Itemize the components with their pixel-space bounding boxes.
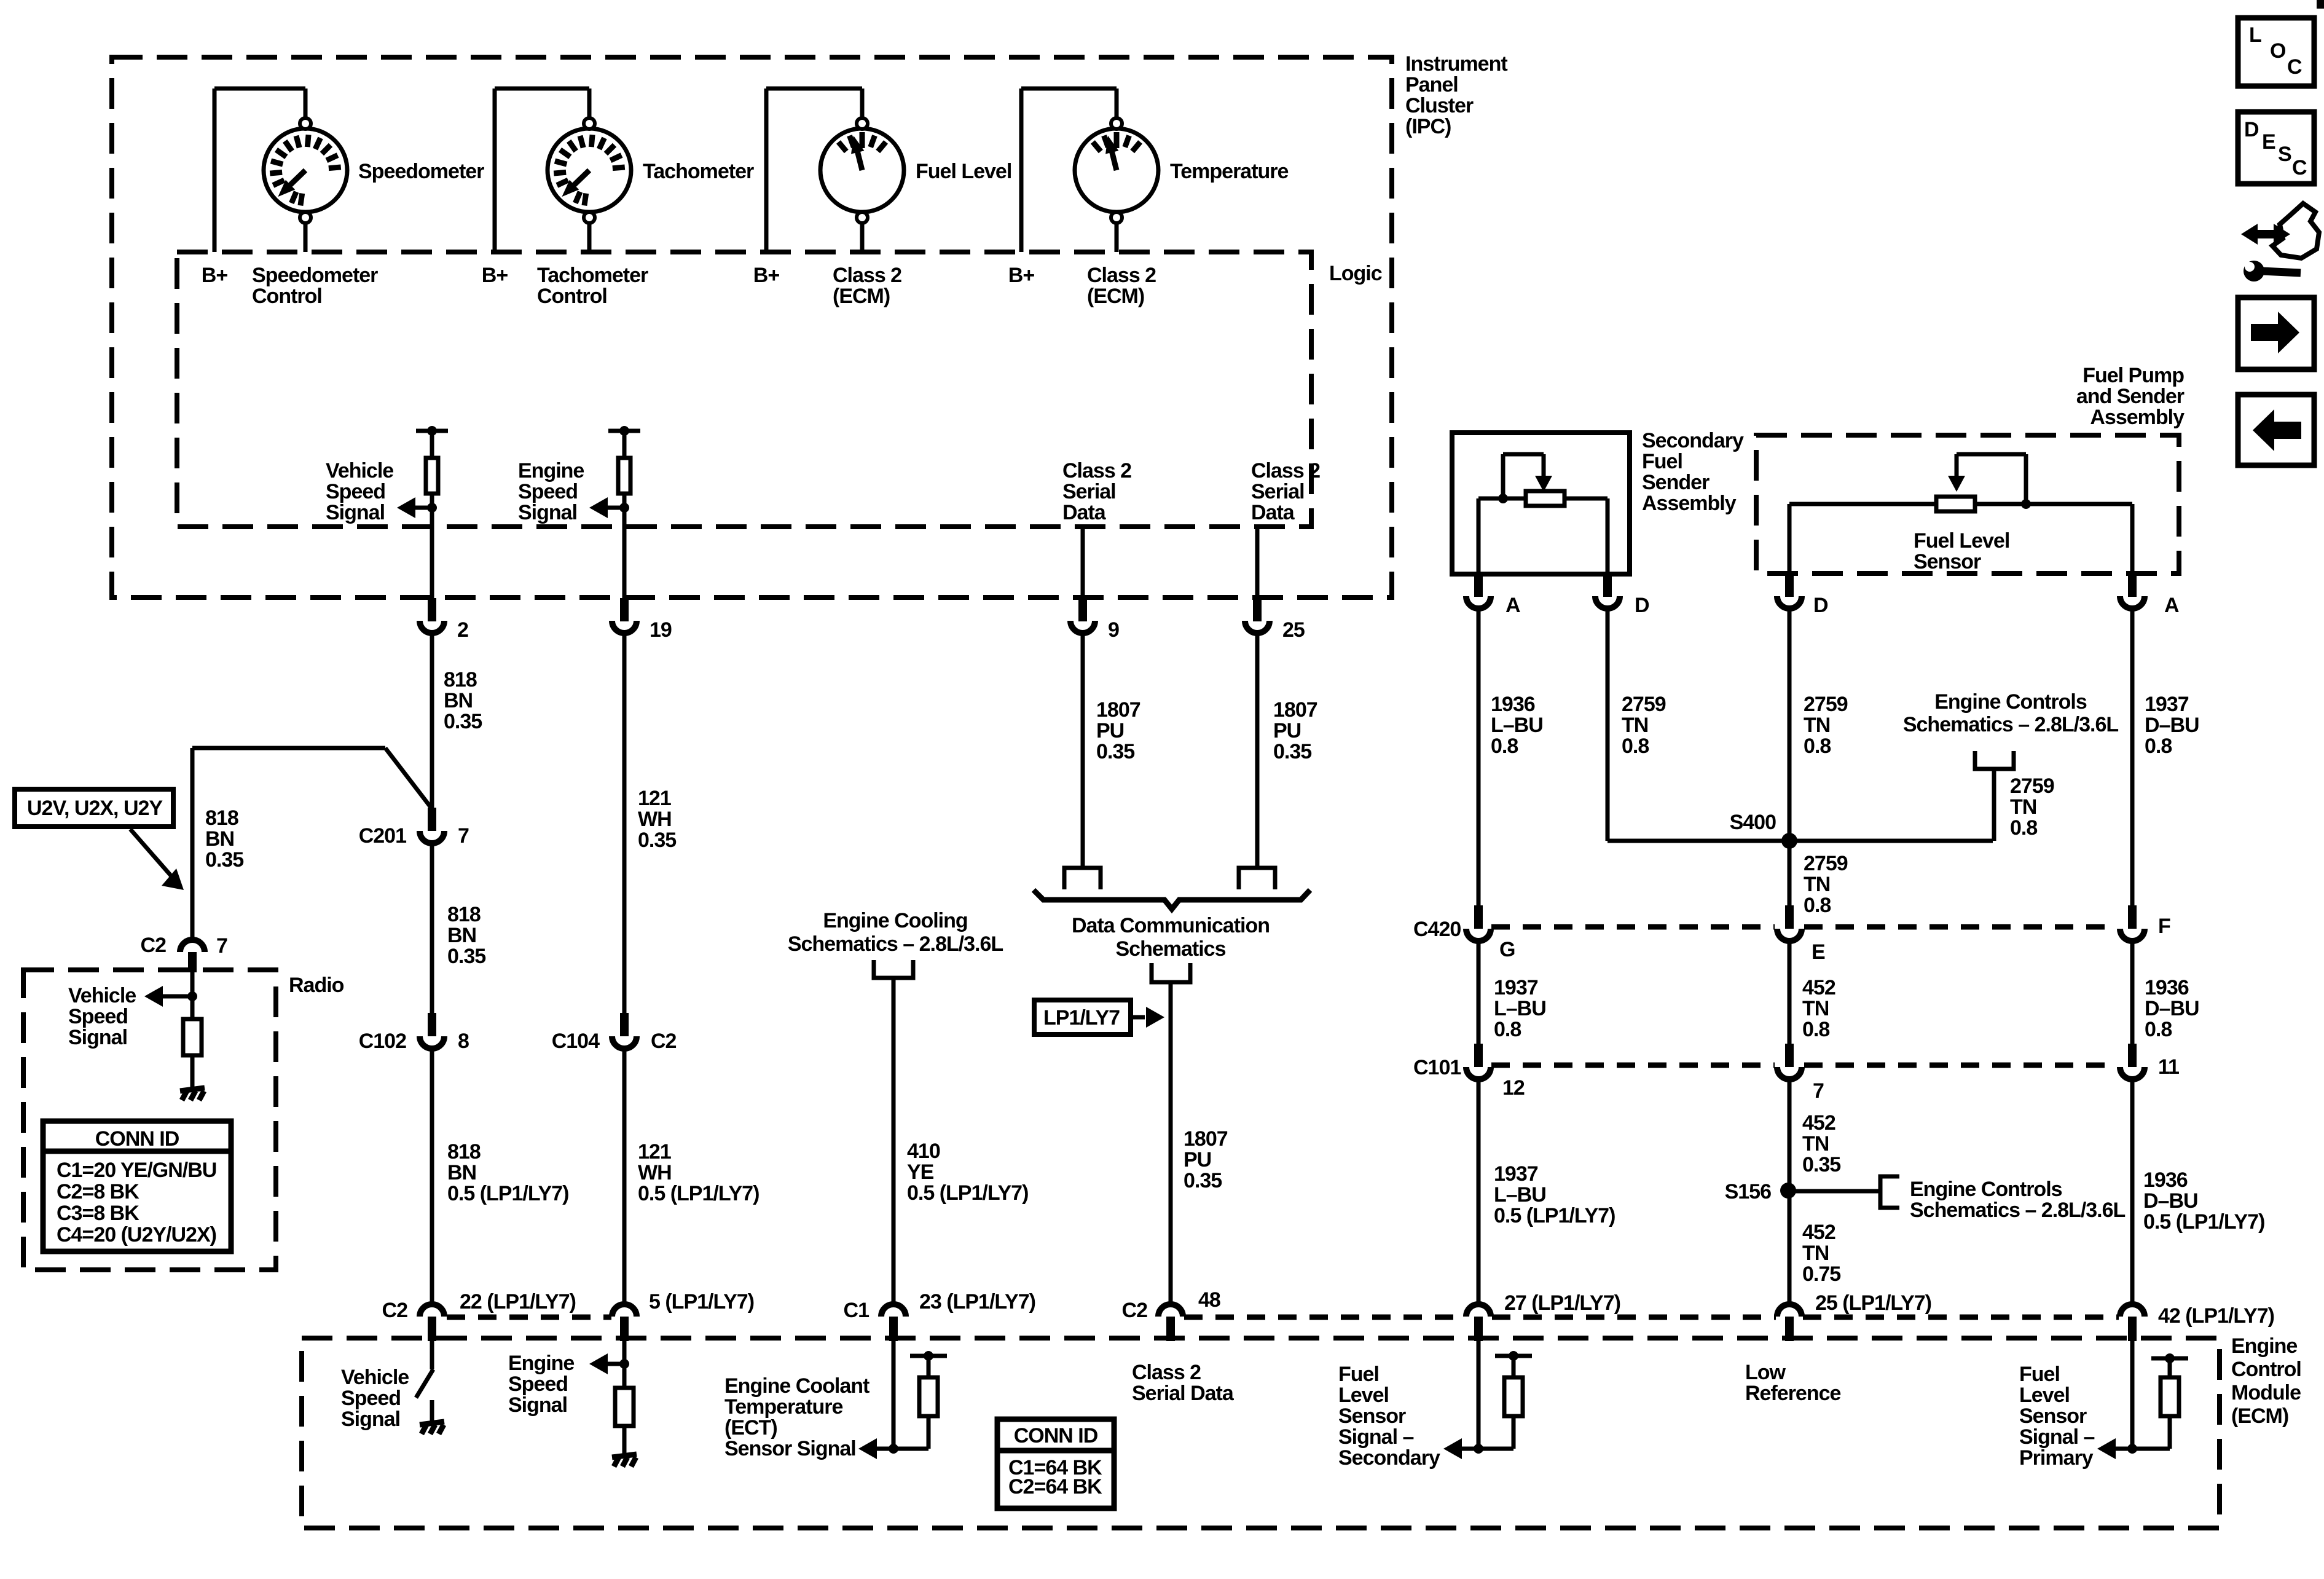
svg-text:LP1/LY7: LP1/LY7: [1043, 1006, 1120, 1030]
svg-text:0.8: 0.8: [2145, 1018, 2172, 1041]
svg-text:9: 9: [1108, 618, 1119, 642]
svg-text:Speed: Speed: [341, 1387, 401, 1410]
svg-text:C2: C2: [141, 934, 167, 957]
svg-text:Signal: Signal: [326, 501, 385, 524]
svg-text:27 (LP1/LY7): 27 (LP1/LY7): [1504, 1291, 1620, 1315]
svg-text:CONN ID: CONN ID: [1014, 1424, 1098, 1447]
svg-text:C2: C2: [382, 1299, 408, 1322]
svg-text:Schematics – 2.8L/3.6L: Schematics – 2.8L/3.6L: [1910, 1199, 2126, 1222]
svg-text:0.35: 0.35: [205, 848, 243, 872]
svg-text:0.5 (LP1/LY7): 0.5 (LP1/LY7): [1494, 1204, 1615, 1227]
svg-text:Instrument: Instrument: [1405, 52, 1507, 76]
svg-text:1937: 1937: [1494, 976, 1538, 999]
svg-text:Sender: Sender: [1642, 471, 1710, 494]
svg-text:0.35: 0.35: [638, 829, 676, 852]
svg-text:Panel: Panel: [1405, 73, 1458, 96]
svg-text:Sensor: Sensor: [2019, 1404, 2087, 1428]
svg-text:0.8: 0.8: [2145, 734, 2172, 758]
svg-text:0.35: 0.35: [444, 710, 482, 733]
svg-text:TN: TN: [1802, 997, 1829, 1020]
svg-text:Class 2: Class 2: [1132, 1361, 1201, 1384]
svg-text:42 (LP1/LY7): 42 (LP1/LY7): [2158, 1304, 2274, 1328]
svg-text:C: C: [2287, 55, 2302, 79]
svg-text:2759: 2759: [1804, 852, 1848, 875]
svg-text:Level: Level: [2019, 1384, 2070, 1407]
svg-text:Engine Cooling: Engine Cooling: [823, 909, 967, 932]
svg-text:L–BU: L–BU: [1491, 714, 1543, 737]
svg-text:22 (LP1/LY7): 22 (LP1/LY7): [460, 1290, 576, 1313]
svg-text:C1: C1: [844, 1299, 870, 1322]
svg-text:Signal –: Signal –: [1338, 1425, 1413, 1449]
svg-text:48: 48: [1198, 1288, 1220, 1312]
svg-text:(IPC): (IPC): [1405, 115, 1451, 138]
svg-text:Assembly: Assembly: [1642, 492, 1737, 515]
svg-text:Signal: Signal: [341, 1408, 400, 1431]
svg-text:Speed: Speed: [326, 480, 385, 503]
svg-text:Control: Control: [2231, 1358, 2301, 1381]
svg-text:Class 2: Class 2: [1087, 264, 1156, 287]
svg-text:25: 25: [1282, 618, 1305, 642]
svg-text:L: L: [2249, 23, 2261, 47]
svg-text:D–BU: D–BU: [2145, 997, 2199, 1020]
svg-text:Signal: Signal: [68, 1026, 127, 1049]
svg-text:Engine Controls: Engine Controls: [1910, 1178, 2062, 1201]
svg-text:0.35: 0.35: [1096, 740, 1134, 763]
svg-text:0.8: 0.8: [1802, 1018, 1829, 1041]
svg-text:2: 2: [457, 618, 468, 642]
svg-text:0.35: 0.35: [1802, 1153, 1840, 1176]
svg-text:Data: Data: [1251, 501, 1295, 524]
svg-text:BN: BN: [444, 689, 473, 712]
svg-text:1936: 1936: [2145, 976, 2189, 999]
svg-text:Vehicle: Vehicle: [341, 1366, 409, 1389]
svg-text:0.8: 0.8: [2010, 816, 2037, 840]
svg-text:Engine Controls: Engine Controls: [1934, 690, 2087, 714]
svg-text:C3=8 BK: C3=8 BK: [57, 1202, 139, 1225]
svg-text:121: 121: [638, 1140, 671, 1164]
svg-text:S156: S156: [1725, 1180, 1771, 1203]
svg-text:Control: Control: [252, 285, 322, 308]
svg-text:Class 2: Class 2: [1251, 459, 1320, 482]
svg-text:A: A: [2164, 594, 2179, 617]
svg-text:Radio: Radio: [289, 974, 344, 997]
svg-text:Module: Module: [2231, 1381, 2301, 1404]
svg-text:TN: TN: [2010, 795, 2036, 819]
svg-text:C104: C104: [552, 1030, 600, 1053]
svg-text:D–BU: D–BU: [2143, 1189, 2198, 1213]
svg-text:Reference: Reference: [1745, 1382, 1841, 1405]
svg-text:0.8: 0.8: [1491, 734, 1518, 758]
svg-text:Temperature: Temperature: [1170, 160, 1289, 183]
svg-text:0.8: 0.8: [1804, 734, 1831, 758]
svg-text:Fuel: Fuel: [2019, 1363, 2060, 1386]
svg-text:818: 818: [444, 668, 477, 691]
svg-text:0.5 (LP1/LY7): 0.5 (LP1/LY7): [2143, 1210, 2264, 1234]
svg-text:Fuel Pump: Fuel Pump: [2083, 364, 2184, 387]
svg-text:(ECM): (ECM): [1087, 285, 1144, 308]
svg-text:Speed: Speed: [508, 1372, 568, 1396]
svg-text:Engine: Engine: [508, 1352, 574, 1375]
svg-text:TN: TN: [1804, 873, 1830, 896]
svg-text:1936: 1936: [2143, 1168, 2188, 1192]
svg-text:C: C: [2292, 156, 2307, 179]
svg-text:C2: C2: [1122, 1299, 1148, 1322]
svg-text:Speedometer: Speedometer: [252, 264, 378, 287]
svg-text:BN: BN: [447, 924, 476, 947]
svg-text:Temperature: Temperature: [724, 1395, 843, 1419]
svg-text:25 (LP1/LY7): 25 (LP1/LY7): [1815, 1291, 1931, 1315]
svg-text:BN: BN: [447, 1161, 476, 1184]
svg-text:S: S: [2278, 143, 2291, 166]
svg-text:Cluster: Cluster: [1405, 94, 1474, 117]
svg-text:Primary: Primary: [2019, 1446, 2094, 1470]
svg-text:(ECM): (ECM): [833, 285, 890, 308]
svg-text:818: 818: [447, 1140, 481, 1164]
svg-text:Tachometer: Tachometer: [643, 160, 754, 183]
svg-text:G: G: [1499, 938, 1515, 961]
svg-text:Speedometer: Speedometer: [358, 160, 484, 183]
svg-text:C102: C102: [359, 1030, 406, 1053]
svg-text:TN: TN: [1804, 714, 1830, 737]
svg-text:2759: 2759: [1622, 693, 1666, 716]
svg-text:PU: PU: [1184, 1148, 1211, 1171]
svg-text:818: 818: [205, 806, 238, 830]
svg-text:L–BU: L–BU: [1494, 1183, 1546, 1207]
svg-text:Low: Low: [1745, 1361, 1786, 1384]
svg-text:Speed: Speed: [68, 1005, 128, 1028]
svg-text:Serial Data: Serial Data: [1132, 1382, 1235, 1405]
svg-text:1807: 1807: [1273, 698, 1317, 722]
svg-text:0.5 (LP1/LY7): 0.5 (LP1/LY7): [447, 1182, 568, 1205]
svg-text:23 (LP1/LY7): 23 (LP1/LY7): [919, 1290, 1035, 1313]
svg-text:7: 7: [216, 934, 227, 958]
svg-text:TN: TN: [1622, 714, 1648, 737]
svg-text:B+: B+: [202, 264, 228, 287]
svg-text:0.35: 0.35: [1184, 1169, 1222, 1192]
svg-text:B+: B+: [753, 264, 780, 287]
svg-text:2759: 2759: [1804, 693, 1848, 716]
svg-text:452: 452: [1802, 1111, 1835, 1135]
svg-text:and Sender: and Sender: [2076, 385, 2185, 408]
svg-text:F: F: [2158, 915, 2170, 938]
svg-text:0.5 (LP1/LY7): 0.5 (LP1/LY7): [907, 1181, 1028, 1205]
svg-text:A: A: [1505, 594, 1520, 617]
svg-text:Serial: Serial: [1251, 480, 1305, 503]
svg-text:C2=64 BK: C2=64 BK: [1008, 1475, 1102, 1498]
svg-text:Sensor: Sensor: [1338, 1404, 1406, 1428]
svg-text:D: D: [1813, 594, 1828, 617]
svg-text:PU: PU: [1096, 719, 1124, 742]
svg-text:TN: TN: [1802, 1242, 1829, 1265]
svg-text:Secondary: Secondary: [1338, 1446, 1440, 1470]
svg-text:Fuel Level: Fuel Level: [916, 160, 1011, 183]
svg-text:0.8: 0.8: [1494, 1018, 1521, 1041]
svg-text:410: 410: [907, 1140, 940, 1163]
svg-text:1807: 1807: [1184, 1127, 1228, 1151]
svg-text:C420: C420: [1413, 918, 1461, 941]
svg-text:Engine: Engine: [2231, 1334, 2297, 1358]
svg-text:Fuel: Fuel: [1338, 1363, 1379, 1386]
svg-text:BN: BN: [205, 827, 234, 851]
svg-text:TN: TN: [1802, 1132, 1829, 1156]
svg-text:Speed: Speed: [518, 480, 578, 503]
svg-text:818: 818: [447, 903, 481, 926]
svg-text:8: 8: [458, 1030, 469, 1053]
svg-text:1936: 1936: [1491, 693, 1535, 716]
svg-text:D: D: [2244, 118, 2259, 141]
svg-text:1937: 1937: [2145, 693, 2189, 716]
svg-text:0.8: 0.8: [1622, 734, 1649, 758]
svg-text:Fuel Level: Fuel Level: [1914, 529, 2009, 553]
svg-text:C201: C201: [359, 824, 406, 848]
svg-text:452: 452: [1802, 1221, 1835, 1244]
svg-text:D: D: [1635, 594, 1649, 617]
svg-text:(ECT): (ECT): [724, 1416, 777, 1439]
svg-text:E: E: [1812, 940, 1825, 964]
svg-text:Engine: Engine: [518, 459, 584, 482]
svg-text:O: O: [2270, 39, 2286, 63]
svg-text:2759: 2759: [2010, 774, 2054, 798]
svg-text:U2V, U2X, U2Y: U2V, U2X, U2Y: [27, 797, 163, 820]
svg-text:121: 121: [638, 787, 671, 810]
svg-text:E: E: [2262, 130, 2275, 154]
svg-text:(ECM): (ECM): [2231, 1404, 2288, 1428]
svg-text:PU: PU: [1273, 719, 1301, 742]
svg-text:Signal –: Signal –: [2019, 1425, 2094, 1449]
svg-text:Schematics: Schematics: [1116, 937, 1226, 961]
svg-text:1807: 1807: [1096, 698, 1140, 722]
svg-text:Class 2: Class 2: [1062, 459, 1131, 482]
svg-text:0.35: 0.35: [447, 945, 485, 968]
svg-text:C101: C101: [1413, 1056, 1461, 1079]
svg-text:Data Communication: Data Communication: [1072, 914, 1270, 937]
svg-text:C4=20 (U2Y/U2X): C4=20 (U2Y/U2X): [57, 1223, 216, 1246]
svg-text:C1=20 YE/GN/BU: C1=20 YE/GN/BU: [57, 1159, 216, 1182]
svg-text:7: 7: [1813, 1079, 1824, 1103]
svg-text:Logic: Logic: [1329, 262, 1382, 285]
svg-text:WH: WH: [638, 1161, 672, 1184]
svg-text:Vehicle: Vehicle: [326, 459, 393, 482]
svg-text:Fuel: Fuel: [1642, 450, 1682, 473]
svg-text:Engine Coolant: Engine Coolant: [724, 1374, 870, 1398]
svg-text:Vehicle: Vehicle: [68, 984, 136, 1007]
svg-text:452: 452: [1802, 976, 1835, 999]
svg-text:Class 2: Class 2: [833, 264, 901, 287]
svg-text:D–BU: D–BU: [2145, 714, 2199, 737]
svg-text:0.5 (LP1/LY7): 0.5 (LP1/LY7): [638, 1182, 759, 1205]
svg-text:Signal: Signal: [508, 1393, 567, 1417]
svg-text:L–BU: L–BU: [1494, 997, 1546, 1020]
svg-text:Data: Data: [1062, 501, 1107, 524]
svg-text:Sensor Signal: Sensor Signal: [724, 1437, 856, 1460]
svg-text:C2: C2: [651, 1030, 677, 1053]
svg-text:WH: WH: [638, 808, 672, 831]
svg-text:0.8: 0.8: [1804, 894, 1831, 917]
svg-text:YE: YE: [907, 1160, 934, 1184]
svg-text:Schematics – 2.8L/3.6L: Schematics – 2.8L/3.6L: [788, 932, 1003, 956]
svg-text:C2=8 BK: C2=8 BK: [57, 1180, 139, 1203]
svg-text:7: 7: [458, 824, 469, 848]
svg-text:B+: B+: [482, 264, 508, 287]
svg-text:Tachometer: Tachometer: [537, 264, 648, 287]
svg-text:Control: Control: [537, 285, 607, 308]
svg-text:Schematics – 2.8L/3.6L: Schematics – 2.8L/3.6L: [1903, 713, 2119, 736]
svg-text:19: 19: [650, 618, 672, 642]
svg-text:5 (LP1/LY7): 5 (LP1/LY7): [649, 1290, 754, 1313]
svg-text:Level: Level: [1338, 1384, 1389, 1407]
svg-text:S400: S400: [1730, 811, 1776, 834]
svg-text:Assembly: Assembly: [2090, 406, 2185, 429]
svg-text:B+: B+: [1008, 264, 1035, 287]
svg-text:Secondary: Secondary: [1642, 429, 1744, 452]
svg-text:11: 11: [2158, 1055, 2179, 1079]
svg-text:1937: 1937: [1494, 1162, 1538, 1186]
svg-text:Sensor: Sensor: [1914, 550, 1981, 573]
svg-text:0.35: 0.35: [1273, 740, 1311, 763]
svg-text:0.75: 0.75: [1802, 1262, 1840, 1286]
svg-text:12: 12: [1502, 1076, 1525, 1100]
svg-text:Serial: Serial: [1062, 480, 1116, 503]
svg-text:Signal: Signal: [518, 501, 577, 524]
svg-text:CONN ID: CONN ID: [95, 1127, 179, 1151]
